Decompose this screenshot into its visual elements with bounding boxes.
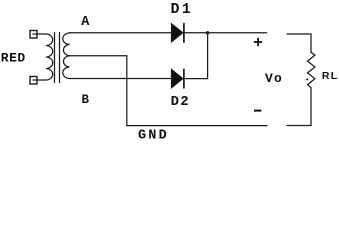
transformer T1 primary terminal square bottom — [30, 77, 37, 85]
wire B to D2 anode — [70, 78, 172, 80]
resistor RL zigzag — [308, 52, 315, 87]
transformer T1 secondary winding — [63, 33, 70, 79]
label plus terminal — [254, 38, 262, 46]
node junction dot — [206, 31, 209, 34]
diode D1 — [171, 24, 184, 43]
wire A to D1 anode — [70, 32, 172, 34]
wire center tap to GND corner — [68, 56, 127, 126]
svg-text:RED: RED — [1, 50, 26, 65]
svg-text:D1: D1 — [171, 1, 193, 18]
wire junction to plus terminal — [208, 32, 267, 34]
svg-text:A: A — [81, 15, 90, 30]
wire junction down to D2 cathode — [184, 33, 208, 79]
wire primary bottom lead — [33, 79, 46, 81]
svg-text:GND: GND — [138, 128, 169, 141]
svg-text:Vo: Vo — [265, 71, 283, 86]
transformer T1 primary terminal square top — [30, 31, 37, 39]
svg-text:D2: D2 — [171, 94, 190, 110]
wire GND rail — [127, 125, 267, 127]
wire primary top lead — [33, 33, 46, 35]
wire D1 cathode to junction — [184, 32, 208, 34]
wire RL branch top — [287, 34, 311, 52]
transformer T1 primary winding — [46, 34, 53, 80]
transformer T1 core — [55, 33, 60, 83]
diode D2 — [171, 69, 184, 88]
resistor RL stray dot — [306, 78, 308, 80]
label minus terminal — [254, 110, 261, 112]
wire RL branch bottom — [287, 88, 311, 126]
svg-text:B: B — [82, 93, 90, 107]
svg-text:RL: RL — [322, 70, 339, 82]
